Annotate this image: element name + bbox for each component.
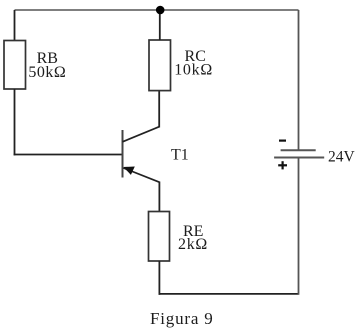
- wire left vertical lower: [14, 89, 16, 155]
- wire collector vertical: [158, 91, 160, 128]
- wire top rail: [15, 9, 299, 11]
- svg-text:2kΩ: 2kΩ: [178, 236, 208, 253]
- wire emitter vertical: [158, 182, 160, 212]
- svg-text:50kΩ: 50kΩ: [28, 64, 66, 81]
- transistor T1: [123, 127, 160, 183]
- label battery plus: [278, 161, 287, 169]
- resistor RE: [149, 212, 170, 262]
- resistor RB: [4, 41, 26, 90]
- svg-text:24V: 24V: [328, 148, 356, 165]
- wire right vertical upper: [298, 10, 300, 150]
- svg-text:T1: T1: [171, 146, 189, 163]
- label battery minus: [279, 140, 286, 142]
- resistor RC: [149, 40, 171, 91]
- battery 24V: [274, 150, 324, 157]
- wire base horizontal: [14, 154, 123, 156]
- wire RC top: [159, 10, 161, 40]
- label RE value: [178, 223, 208, 253]
- label RB value: [28, 50, 66, 81]
- svg-text:10kΩ: 10kΩ: [174, 61, 213, 78]
- wire bottom rail: [159, 293, 299, 295]
- node junction dot: [156, 6, 165, 15]
- label RC value: [174, 48, 213, 78]
- wire right vertical lower: [298, 158, 300, 295]
- svg-text:Figura 9: Figura 9: [150, 309, 214, 328]
- wire left vertical upper: [14, 10, 16, 41]
- wire RE bottom: [158, 261, 160, 295]
